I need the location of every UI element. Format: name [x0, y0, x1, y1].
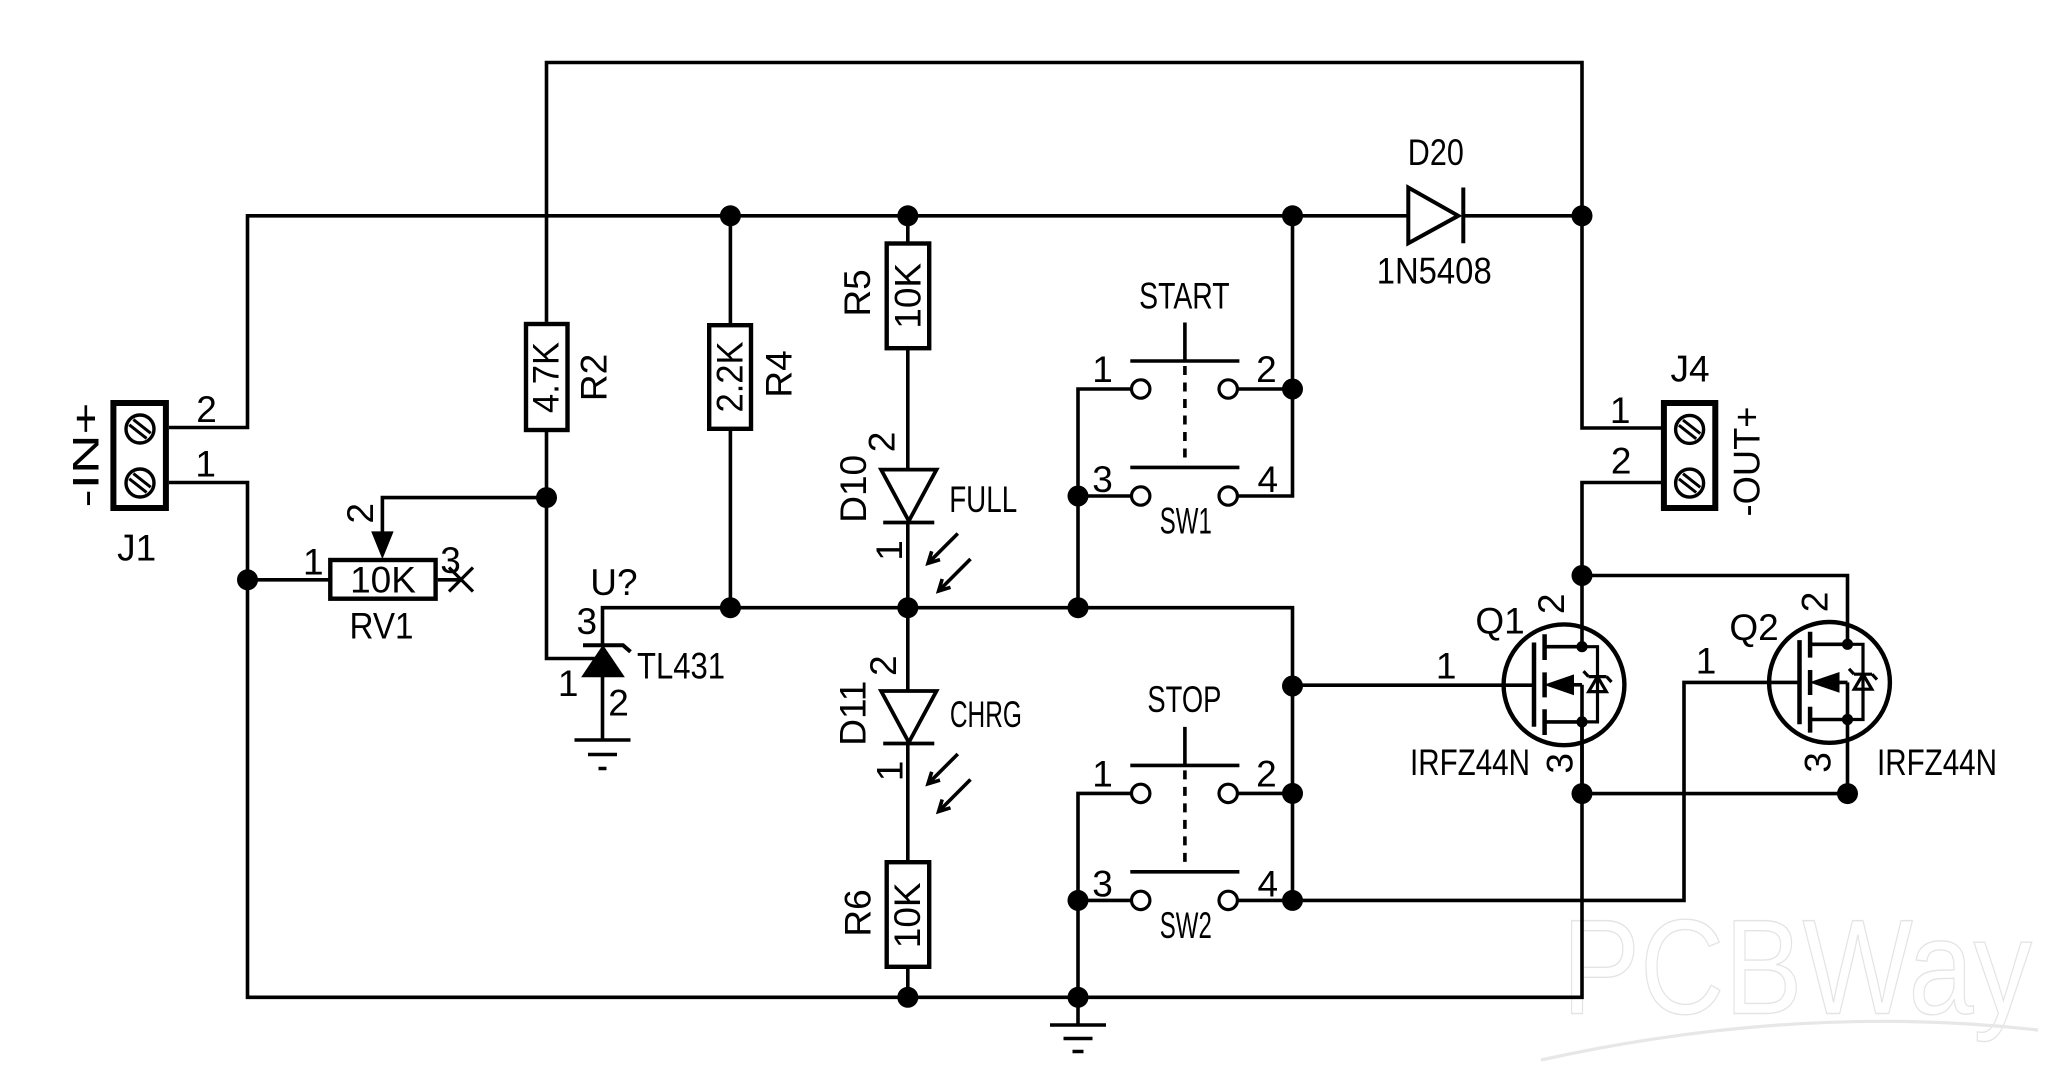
- svg-text:J1: J1: [117, 527, 156, 568]
- svg-text:1: 1: [303, 542, 324, 583]
- svg-text:D11: D11: [833, 681, 874, 746]
- svg-text:Q2: Q2: [1729, 607, 1778, 648]
- svg-text:SW2: SW2: [1160, 905, 1212, 946]
- svg-text:-IN+: -IN+: [66, 403, 107, 508]
- svg-text:3: 3: [577, 601, 598, 642]
- svg-text:PCBWay: PCBWay: [1562, 892, 2032, 1043]
- svg-text:2: 2: [863, 655, 904, 676]
- svg-text:U?: U?: [590, 562, 637, 603]
- svg-text:RV1: RV1: [350, 605, 414, 646]
- svg-text:2: 2: [1256, 754, 1277, 795]
- svg-text:3: 3: [440, 540, 461, 581]
- svg-text:D20: D20: [1408, 132, 1464, 173]
- svg-text:4.7K: 4.7K: [525, 342, 566, 413]
- svg-text:3: 3: [1798, 752, 1839, 773]
- svg-text:R5: R5: [837, 269, 878, 316]
- svg-text:2.2K: 2.2K: [709, 341, 750, 412]
- svg-text:1: 1: [869, 540, 910, 561]
- svg-text:2: 2: [1531, 594, 1572, 615]
- svg-text:2: 2: [1256, 349, 1277, 390]
- svg-text:1N5408: 1N5408: [1377, 251, 1492, 292]
- svg-text:3: 3: [1092, 459, 1113, 500]
- svg-text:10K: 10K: [887, 882, 928, 948]
- svg-text:1: 1: [1092, 349, 1113, 390]
- svg-text:IRFZ44N: IRFZ44N: [1877, 742, 1997, 783]
- svg-text:1: 1: [558, 663, 579, 704]
- svg-text:FULL: FULL: [949, 479, 1017, 520]
- svg-text:3: 3: [1092, 863, 1113, 904]
- svg-text:10K: 10K: [350, 559, 416, 600]
- svg-text:4: 4: [1258, 863, 1279, 904]
- svg-text:STOP: STOP: [1147, 679, 1221, 720]
- svg-text:D10: D10: [833, 455, 874, 523]
- svg-text:10K: 10K: [887, 263, 928, 329]
- svg-text:R4: R4: [759, 350, 800, 397]
- svg-text:R2: R2: [574, 354, 615, 401]
- svg-text:3: 3: [1540, 753, 1581, 774]
- svg-text:4: 4: [1258, 459, 1279, 500]
- svg-text:2: 2: [608, 683, 629, 724]
- svg-text:START: START: [1139, 275, 1230, 316]
- svg-text:R6: R6: [838, 889, 879, 936]
- svg-text:1: 1: [195, 444, 216, 485]
- svg-text:1: 1: [1610, 390, 1631, 431]
- svg-text:J4: J4: [1670, 349, 1709, 390]
- svg-text:2: 2: [862, 432, 903, 453]
- svg-text:Q1: Q1: [1475, 601, 1524, 642]
- svg-text:2: 2: [1611, 441, 1632, 482]
- svg-text:2: 2: [196, 389, 217, 430]
- svg-text:IRFZ44N: IRFZ44N: [1410, 742, 1530, 783]
- svg-text:CHRG: CHRG: [950, 694, 1022, 735]
- svg-text:2: 2: [340, 503, 381, 524]
- svg-text:1: 1: [1696, 641, 1717, 682]
- svg-text:1: 1: [1092, 754, 1113, 795]
- svg-text:TL431: TL431: [637, 646, 725, 687]
- svg-text:1: 1: [869, 761, 910, 782]
- svg-text:2: 2: [1795, 592, 1836, 613]
- svg-text:SW1: SW1: [1160, 501, 1212, 542]
- svg-text:-OUT+: -OUT+: [1727, 407, 1768, 517]
- svg-text:1: 1: [1436, 646, 1457, 687]
